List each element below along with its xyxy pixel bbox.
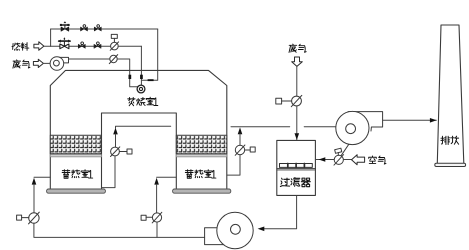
wire down to instrument xyxy=(296,66,298,96)
FE3 transmitter box xyxy=(282,100,292,102)
wire B2 outlet to stack xyxy=(383,119,437,121)
arrow up xyxy=(113,128,118,135)
D2 actuator box xyxy=(245,149,251,151)
wire instrument to chamber wall xyxy=(102,156,116,188)
flow element FE2 circle with slash xyxy=(110,55,117,62)
arrow up left riser xyxy=(32,178,37,185)
label 燃料 xyxy=(12,43,29,51)
arrow left into B3 xyxy=(258,227,265,232)
wire instrument to vessel wall xyxy=(227,155,240,175)
wire upper fuel branch xyxy=(51,28,158,30)
waste gas inlet block arrow xyxy=(33,59,43,67)
wire FE1 to burner drop xyxy=(118,45,141,47)
ball valve V5 xyxy=(78,42,85,48)
air damper D5 circle with slash xyxy=(334,155,343,164)
damper D3 circle with slash xyxy=(29,213,39,223)
label 排放 xyxy=(441,136,459,144)
wire fan outlet xyxy=(69,58,110,60)
wire arrow to instrument xyxy=(239,134,241,145)
damper D4 circle with slash xyxy=(152,213,161,222)
label 废气 (left) xyxy=(13,60,30,68)
air inlet block arrow xyxy=(352,155,365,165)
arrow up xyxy=(238,127,243,134)
waste gas down block arrow xyxy=(292,57,303,66)
fan B3 scroll xyxy=(205,212,254,248)
valve V1 with hand actuator xyxy=(60,21,70,31)
D5 actuator box and lever xyxy=(337,153,339,156)
fuel inlet block arrow xyxy=(34,42,44,51)
stack base xyxy=(435,163,466,166)
stack xyxy=(437,25,464,163)
wire arrow to fan xyxy=(43,62,50,64)
D1 actuator box xyxy=(119,151,127,153)
wire header to fan (with crossing gap) xyxy=(231,126,336,128)
wire air line into filter xyxy=(315,159,334,161)
D4 actuator box xyxy=(146,216,152,218)
wire mid riser lower xyxy=(156,222,158,237)
D3 actuator box xyxy=(22,217,29,219)
wire B3 inlet from filter xyxy=(262,195,297,228)
vessel center notch xyxy=(102,113,177,189)
fan B1 (waste gas blower) xyxy=(50,57,68,71)
filter cartridges xyxy=(280,164,313,168)
wire notch header xyxy=(116,126,171,128)
right heat-storage media block xyxy=(176,135,227,154)
filter vessel xyxy=(277,140,316,195)
flow element FE1 circle with slash xyxy=(111,42,119,50)
label 焚烧室1 xyxy=(128,97,158,106)
fan B2 scroll xyxy=(336,111,383,144)
burner U1 xyxy=(137,85,145,93)
vessel outline xyxy=(50,70,227,189)
control valve V4 xyxy=(59,37,70,48)
wire mid riser upper xyxy=(156,184,158,213)
label 空气 xyxy=(369,156,386,164)
label 蓄热室1 (left) xyxy=(62,170,93,179)
arrow right into stack xyxy=(430,118,437,123)
wire lower fuel branch xyxy=(51,45,111,47)
arrow up mid riser xyxy=(154,178,159,185)
wire fuel drop to burner xyxy=(140,46,142,85)
arrow left into filter xyxy=(319,157,326,162)
ball valve V2 xyxy=(81,25,88,31)
left heat-storage media block xyxy=(50,135,101,154)
wire valve to air arrow xyxy=(343,159,351,161)
wire mid riser stub xyxy=(157,176,177,178)
arrow down into filter xyxy=(295,133,300,140)
left chamber pedestal xyxy=(47,189,106,193)
wire tee riser xyxy=(50,29,52,46)
flow element FE3 circle with slash xyxy=(292,96,302,106)
wire FE2 to burner xyxy=(117,59,137,87)
wire left riser upper xyxy=(33,184,35,213)
label 过滤器 xyxy=(280,178,310,187)
ball valve V6 xyxy=(94,42,101,48)
pilot nozzle bar xyxy=(148,79,154,81)
wire fuel arrow to tee xyxy=(44,45,51,47)
wire left riser stub xyxy=(34,176,50,178)
damper D1 circle with slash xyxy=(111,147,120,156)
ball valve V3 xyxy=(94,25,101,31)
FE1 transmitter box xyxy=(113,38,115,42)
label 废气 (top right) xyxy=(289,44,306,52)
filter support double line xyxy=(277,168,316,170)
wire instrument to filter xyxy=(296,106,298,140)
damper D2 circle with slash xyxy=(235,145,244,154)
wire upper branch drop into chamber xyxy=(142,29,158,80)
right chamber pedestal xyxy=(173,189,231,193)
wire arrow to instrument xyxy=(115,134,117,147)
fuel nozzle bar xyxy=(140,75,143,79)
label 蓄热室1 (right) xyxy=(185,170,216,179)
waste nozzle bar xyxy=(129,75,132,79)
wire left riser lower + bottom run xyxy=(34,223,205,237)
